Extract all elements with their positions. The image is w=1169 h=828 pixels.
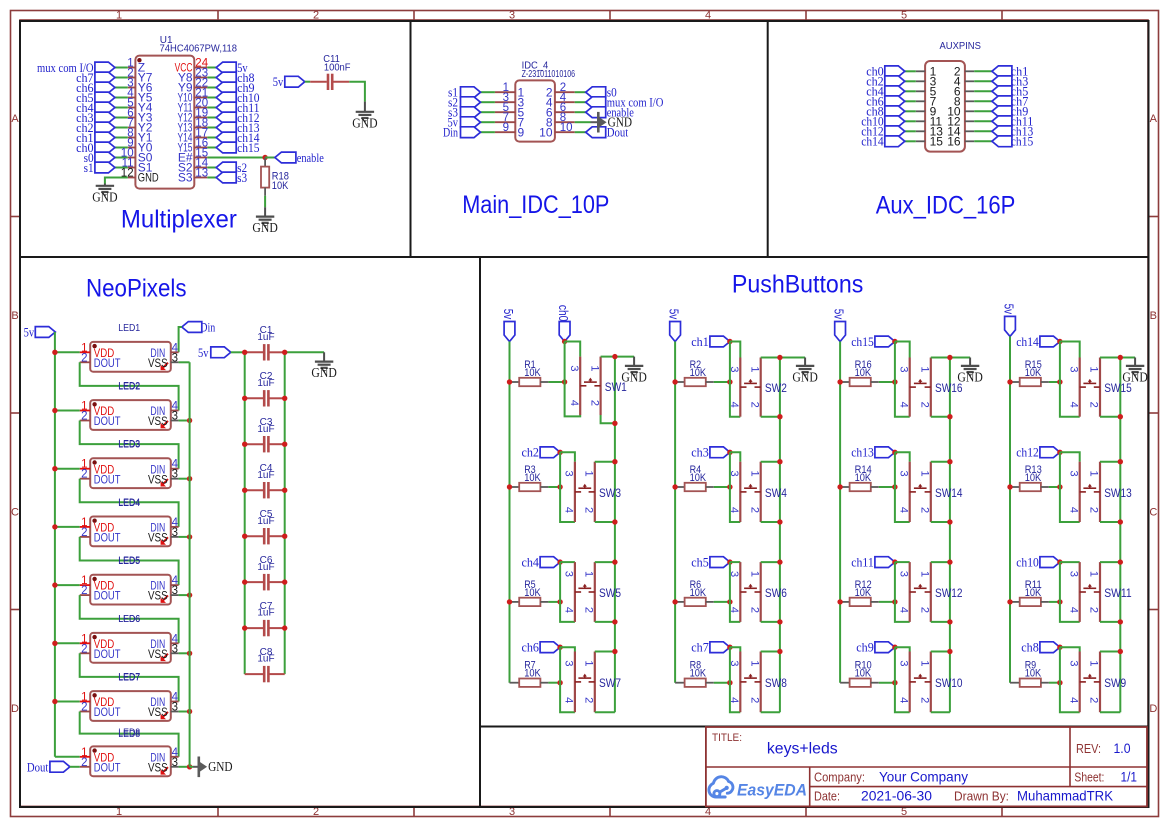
LED8 pin 4 DIN stub + number + name [150, 747, 178, 765]
svg-text:2: 2 [748, 507, 760, 513]
AUXPINS pin 7 stub + number [916, 95, 937, 109]
svg-text:VSS: VSS [148, 589, 168, 603]
LED8 reference label [118, 727, 140, 738]
wire ch10 node vertical [1060, 562, 1080, 622]
junction dots C5 [242, 534, 287, 539]
svg-text:1uF: 1uF [257, 378, 274, 389]
svg-text:VSS: VSS [148, 760, 168, 774]
power flag 5v (push button column 3) [832, 309, 846, 342]
net flag ch10 on U1 pin 21 [207, 91, 259, 105]
U1 pin 4 (Y5) stub + number + name [127, 88, 153, 105]
LED5 pin 2 DOUT stub + number + name [80, 585, 121, 603]
wire C1 to ground [285, 351, 324, 353]
svg-text:VSS: VSS [148, 472, 168, 486]
net flag enable on IDC_4 pin 6 [575, 106, 634, 120]
svg-text:SW14: SW14 [935, 488, 963, 500]
svg-text:A: A [1150, 113, 1158, 125]
junction 5v rail to LED3 VDD [52, 466, 79, 471]
wire SW7 pin 1 to gnd rail [595, 649, 618, 654]
svg-text:2: 2 [81, 411, 87, 423]
wire ch14 node to switch pin 3 [1060, 342, 1080, 358]
net flag ch2 on U1 pin 7 [76, 121, 128, 135]
R11 value label 10K [1025, 587, 1042, 599]
svg-text:DOUT: DOUT [94, 356, 121, 370]
LED1 pin 1 VDD stub + number + name [80, 342, 115, 360]
section title Main_IDC_10P [462, 191, 609, 219]
svg-text:3: 3 [1067, 471, 1079, 477]
wire U1 pin 12 to ground [105, 178, 128, 184]
wire SW16 pin 2 to gnd rail [931, 414, 953, 419]
svg-text:5v: 5v [501, 309, 515, 320]
U1 pin 22 (Y9) stub + number + name [178, 78, 208, 95]
U1 pin 1 (Z) stub + number + name [127, 58, 145, 75]
svg-text:B: B [11, 310, 18, 322]
LED5 pin 4 DIN stub + number + name [150, 575, 178, 593]
power flag 5v (push button column 2) [667, 309, 681, 342]
svg-text:DOUT: DOUT [94, 414, 121, 428]
wire SW5 pin 1 to gnd rail [595, 559, 618, 564]
wire SW4 pin 1 to gnd rail [761, 459, 783, 464]
svg-text:4: 4 [1067, 402, 1079, 408]
svg-text:4: 4 [568, 400, 580, 406]
svg-text:3: 3 [172, 702, 178, 714]
svg-text:C: C [1149, 507, 1157, 519]
U1 pin 24 (VCC) stub + number + name [175, 58, 209, 75]
AUXPINS pin 4 stub + number [954, 75, 974, 89]
resistor R10 10K [840, 679, 895, 687]
svg-text:enable: enable [297, 151, 324, 165]
svg-text:10K: 10K [524, 668, 541, 680]
resistor R13 10K [1010, 483, 1060, 491]
svg-text:Date:: Date: [814, 789, 840, 803]
R14 reference label [855, 464, 872, 476]
svg-text:ch15: ch15 [851, 335, 874, 349]
svg-text:LED6: LED6 [118, 614, 140, 625]
wire LED3 DOUT to LED4 DIN [80, 479, 179, 527]
svg-text:A: A [11, 113, 19, 125]
svg-text:1: 1 [919, 660, 931, 666]
WS2812 LED4 body [90, 517, 171, 547]
svg-text:1uF: 1uF [257, 470, 274, 481]
R2 value label 10K [690, 367, 707, 379]
SW10 reference label [935, 678, 963, 690]
svg-text:4: 4 [897, 402, 909, 408]
svg-text:4: 4 [1067, 607, 1079, 613]
svg-text:10: 10 [539, 125, 553, 139]
svg-text:ch4: ch4 [522, 555, 540, 569]
wire ch0 node vertical [565, 342, 581, 417]
SW1 pin 2 number [588, 400, 600, 406]
svg-text:SW13: SW13 [1104, 488, 1132, 500]
IDC_4 pin 5 stub + numbers [495, 102, 525, 119]
wire SW12 pin 2 to gnd rail [931, 619, 953, 624]
IDC_4 pin 9 stub + numbers [495, 122, 525, 139]
wire LED6 DOUT to LED7 DIN [80, 653, 179, 701]
SW6 reference label [765, 588, 787, 600]
AUXPINS pin 13 stub + number [916, 125, 943, 139]
svg-text:1/1: 1/1 [1121, 769, 1138, 785]
SW5 pin 1 number [583, 571, 595, 577]
wire LED1 DOUT to LED2 DIN [80, 362, 179, 410]
wire SW1 pin 2 to gnd rail [601, 415, 618, 426]
SW14 pin 4 number [897, 507, 909, 513]
R7 value label 10K [524, 668, 541, 680]
wire ch11 node vertical [895, 562, 910, 622]
svg-text:2: 2 [1088, 402, 1100, 408]
R15 reference label [1025, 359, 1042, 371]
SW11 pin 2 number [1088, 607, 1100, 613]
svg-text:SW6: SW6 [765, 588, 787, 600]
svg-text:2: 2 [748, 697, 760, 703]
svg-text:2: 2 [919, 697, 931, 703]
resistor R6 10K [675, 598, 730, 606]
C8 reference label [260, 647, 273, 658]
wire ch9 node vertical [895, 647, 910, 712]
SW7 pin 3 number [563, 660, 575, 666]
net flag ch13 [851, 446, 895, 460]
net flag ch4 on U1 pin 5 [76, 101, 128, 115]
U1 pin 2 (Y7) stub + number + name [127, 68, 153, 85]
resistor R5 10K [510, 598, 561, 606]
svg-text:1: 1 [748, 660, 760, 666]
tact switch SW13 [1080, 462, 1100, 522]
svg-text:SW8: SW8 [765, 678, 787, 690]
svg-text:SW5: SW5 [599, 588, 621, 600]
U1 pin 7 (Y2) stub + number + name [127, 118, 153, 135]
title block Sheet label [1074, 771, 1104, 785]
AUXPINS pin 11 stub + number [916, 115, 943, 129]
svg-text:ch3: ch3 [691, 446, 709, 460]
SW1 pin 4 number [568, 400, 580, 406]
svg-text:VSS: VSS [148, 414, 168, 428]
R1 value label 10K [524, 367, 541, 379]
SW5 pin 2 number [583, 607, 595, 613]
SW12 pin 1 number [919, 571, 931, 577]
junction rail-R10 [892, 680, 897, 685]
net flag ch9 on U1 pin 22 [207, 81, 254, 95]
svg-text:2: 2 [919, 507, 931, 513]
title block Company label [814, 770, 865, 784]
R13 value label 10K [1025, 472, 1042, 484]
wire ch12 node to switch pin 3 [1060, 452, 1080, 461]
svg-text:AUXPINS: AUXPINS [940, 41, 982, 52]
R8 reference label [690, 660, 702, 672]
svg-text:1uF: 1uF [257, 332, 274, 343]
R14 value label 10K [855, 472, 872, 484]
LED6 pin 1 VDD stub + number + name [80, 633, 115, 651]
R10 reference label [855, 660, 872, 672]
tact switch SW4 [740, 462, 760, 522]
svg-text:ch0: ch0 [556, 305, 570, 322]
resistor R4 10K [675, 483, 730, 491]
svg-text:3: 3 [563, 471, 575, 477]
tact switch SW3 [575, 462, 595, 522]
SW13 pin 3 number [1067, 471, 1079, 477]
LED3 pin 2 DOUT stub + number + name [80, 469, 121, 487]
SW6 pin 2 number [748, 607, 760, 613]
C2 value label 1uF [257, 378, 274, 389]
U1 pin 20 (Y11) stub + number + name [178, 98, 209, 115]
svg-text:10K: 10K [1025, 367, 1042, 379]
SW15 pin 4 number [1067, 402, 1079, 408]
svg-text:5v: 5v [273, 75, 284, 89]
C2 reference label [260, 371, 273, 382]
U1 pin 18 (Y13) stub + number + name [178, 118, 209, 135]
svg-text:GND: GND [608, 115, 633, 130]
C1 value label 1uF [257, 332, 274, 343]
SW2 reference label [765, 383, 787, 395]
R18 value label 10K [272, 180, 289, 192]
net flag ch4 [522, 555, 561, 569]
net flag mux com I/O on IDC_4 pin 4 [575, 96, 664, 110]
net flag ch9 [856, 641, 895, 655]
C11 value label 100nF [324, 62, 351, 73]
frame column ticks and numbers [116, 10, 1002, 819]
svg-text:3: 3 [172, 757, 178, 769]
svg-text:1uF: 1uF [257, 608, 274, 619]
wire SW3 pin 1 to gnd rail [595, 459, 618, 464]
junction dots C4 [242, 488, 287, 493]
svg-text:4: 4 [728, 697, 740, 703]
net flag ch5 on U1 pin 4 [76, 91, 128, 105]
SW1 reference label [605, 382, 627, 394]
svg-text:3: 3 [172, 469, 178, 481]
SW5 pin 4 number [563, 607, 575, 613]
wire ch4 node vertical [560, 562, 575, 622]
net flag s3 on IDC_4 pin 5 [448, 106, 495, 120]
junction ch1 node [727, 339, 732, 344]
junction rail-R8 [727, 680, 732, 685]
net flag ch6 on AUXPINS pin 7 [866, 95, 916, 109]
svg-text:GND: GND [311, 365, 337, 380]
wire ch6 node to switch pin 3 [560, 647, 575, 651]
svg-text:3: 3 [172, 411, 178, 423]
wire ch7 node vertical [730, 647, 740, 712]
C5 reference label [260, 509, 273, 520]
R4 reference label [690, 464, 702, 476]
svg-text:2: 2 [748, 402, 760, 408]
LED4 pin 2 DOUT stub + number + name [80, 527, 121, 545]
U1 pin 13 (S3) stub + number + name [178, 168, 208, 185]
svg-text:1: 1 [919, 471, 931, 477]
svg-text:10K: 10K [1025, 668, 1042, 680]
svg-text:1uF: 1uF [257, 424, 274, 435]
net flag Din on IDC_4 pin 9 [443, 126, 495, 140]
U1 value label 74HC4067PW,118 [160, 44, 238, 55]
IDC_4 pin 2 stub + numbers [546, 82, 575, 99]
resistor R3 10K [510, 483, 561, 491]
wire ch1 node vertical [730, 342, 740, 417]
svg-text:3: 3 [172, 527, 178, 539]
svg-text:ch10: ch10 [1016, 555, 1039, 569]
svg-text:2: 2 [748, 607, 760, 613]
svg-text:2: 2 [81, 352, 87, 364]
LED7 pin 1 VDD stub + number + name [80, 692, 115, 710]
SW15 pin 3 number [1067, 366, 1079, 372]
section title PushButtons [732, 271, 863, 299]
svg-text:4: 4 [897, 697, 909, 703]
connector AUXPINS body [925, 61, 965, 152]
capacitor C4 [245, 482, 285, 498]
C4 reference label [260, 463, 273, 474]
SW10 pin 2 number [919, 697, 931, 703]
svg-text:SW1: SW1 [605, 382, 627, 394]
SW5 reference label [599, 588, 621, 600]
svg-text:5v: 5v [832, 309, 846, 320]
svg-text:s3: s3 [237, 171, 247, 185]
wire SW9 pin 1 to gnd rail [1100, 649, 1123, 654]
junction ch15 node [892, 339, 897, 344]
svg-text:2: 2 [81, 585, 87, 597]
SW1 pin 3 number [568, 365, 580, 371]
junction ch11 node [892, 559, 897, 564]
tact switch SW8 [740, 652, 760, 713]
svg-text:1: 1 [1088, 660, 1100, 666]
svg-text:ch2: ch2 [522, 446, 540, 460]
IDC_4 pin 1 stub + numbers [495, 82, 525, 99]
svg-text:DOUT: DOUT [94, 472, 121, 486]
R5 value label 10K [524, 587, 541, 599]
R6 reference label [690, 579, 702, 591]
resistor R2 10K [675, 378, 730, 386]
svg-text:SW12: SW12 [935, 588, 963, 600]
SW16 reference label [935, 383, 963, 395]
R1 reference label [524, 359, 536, 371]
U1 pin 23 (Y8) stub + number + name [178, 68, 208, 85]
svg-text:5v: 5v [198, 346, 209, 360]
LED4 reference label [118, 497, 140, 508]
net flag mux com I/O on U1 pin 1 [37, 61, 128, 75]
resistor R1 10K [510, 378, 565, 386]
wire ch14 node vertical [1060, 342, 1080, 417]
R8 value label 10K [690, 668, 707, 680]
junction 5v rail to LED6 VDD [52, 641, 79, 646]
R7 reference label [524, 660, 536, 672]
svg-text:DOUT: DOUT [94, 647, 121, 661]
SW11 pin 4 number [1067, 607, 1079, 613]
WS2812 LED2 body [90, 400, 171, 430]
wire SW6 pin 1 to gnd rail [761, 559, 783, 564]
section title Multiplexer [121, 206, 237, 234]
junction rail-R16 [837, 379, 897, 384]
wire ch2 node vertical [560, 452, 575, 522]
junction dots C3 [242, 442, 287, 447]
C4 value label 1uF [257, 470, 274, 481]
IDC_4 pin 10 stub + numbers [539, 122, 575, 139]
svg-text:1: 1 [583, 660, 595, 666]
wire ch10 node to switch pin 3 [1060, 561, 1080, 563]
R9 value label 10K [1025, 668, 1042, 680]
svg-text:3: 3 [728, 660, 740, 666]
svg-text:PushButtons: PushButtons [732, 271, 863, 299]
SW10 pin 4 number [897, 697, 909, 703]
U1 reference designator label [160, 35, 173, 46]
ground symbol below C11 [352, 102, 378, 131]
U1 pin 9 (Y0) stub + number + name [127, 138, 153, 155]
AUXPINS reference label [940, 41, 982, 52]
svg-text:2: 2 [81, 702, 87, 714]
net flag 5v at C11 [273, 75, 310, 89]
svg-text:3: 3 [728, 471, 740, 477]
svg-text:1: 1 [919, 366, 931, 372]
junction 5v rail to LED5 VDD [52, 582, 79, 587]
tact switch SW15 [1080, 358, 1100, 417]
title block sheet value 1/1 [1121, 769, 1138, 785]
AUXPINS pin 1 stub + number [916, 65, 937, 79]
net flag s2 on IDC_4 pin 3 [448, 96, 495, 110]
LED4 pin 4 DIN stub + number + name [150, 517, 178, 535]
svg-text:10: 10 [560, 122, 573, 134]
svg-text:Main_IDC_10P: Main_IDC_10P [462, 191, 609, 219]
SW12 reference label [935, 588, 963, 600]
svg-text:keys+leds: keys+leds [767, 741, 838, 758]
capacitor C7 [245, 620, 285, 636]
IDC_4 reference label [522, 60, 549, 71]
SW9 pin 3 number [1067, 660, 1079, 666]
svg-text:4: 4 [705, 10, 711, 22]
svg-text:VSS: VSS [148, 356, 168, 370]
svg-text:SW15: SW15 [1104, 383, 1132, 395]
svg-text:10K: 10K [855, 668, 872, 680]
svg-text:3: 3 [1067, 571, 1079, 577]
svg-text:3: 3 [897, 366, 909, 372]
SW16 pin 1 number [919, 366, 931, 372]
SW7 pin 1 number [583, 660, 595, 666]
LED2 pin 1 VDD stub + number + name [80, 401, 115, 419]
SW8 pin 1 number [748, 660, 760, 666]
WS2812 LED5 body [90, 575, 171, 605]
LED7 name label on wire [118, 672, 140, 683]
R12 value label 10K [855, 587, 872, 599]
SW16 pin 3 number [897, 366, 909, 372]
svg-text:1.0: 1.0 [1114, 740, 1131, 756]
svg-text:SW3: SW3 [599, 488, 621, 500]
AUXPINS pin 16 stub + number [947, 135, 974, 149]
net flag ch3 [691, 446, 730, 460]
LED1 pin 2 DOUT stub + number + name [80, 352, 121, 370]
wire SW9 pin 2 to gnd rail [1100, 711, 1120, 713]
svg-text:10K: 10K [855, 472, 872, 484]
svg-text:VSS: VSS [148, 531, 168, 545]
junction dots C7 [242, 625, 287, 630]
LED5 reference label [118, 556, 140, 567]
net flag ch8 [1021, 641, 1060, 655]
wire switch gnd rail column 1 [614, 357, 616, 713]
junction 5v rail to LED8 VDD [55, 756, 80, 758]
tact switch SW11 [1080, 562, 1100, 622]
svg-text:1: 1 [1088, 471, 1100, 477]
wire R18 to ground [264, 196, 266, 207]
LED8 pin 2 DOUT stub + number + name [80, 757, 121, 775]
svg-text:5v: 5v [1002, 304, 1016, 315]
svg-text:LED8: LED8 [118, 727, 140, 738]
svg-text:4: 4 [728, 507, 740, 513]
WS2812 LED3 body [90, 458, 171, 488]
junction dots C6 [242, 579, 287, 584]
junction 5v rail to LED4 VDD [52, 524, 79, 529]
net flag 5v on U1 pin 24 [207, 61, 248, 75]
svg-text:Your Company: Your Company [879, 768, 968, 784]
junction ch13 node [892, 450, 897, 455]
svg-text:1: 1 [748, 366, 760, 372]
SW4 pin 4 number [728, 507, 740, 513]
wire LED2 DOUT to LED3 DIN [80, 421, 179, 469]
wire SW15 pin 2 to gnd rail [1100, 414, 1123, 419]
svg-text:3: 3 [897, 660, 909, 666]
svg-text:2: 2 [81, 469, 87, 481]
WS2812 LED7 body [90, 691, 171, 721]
SW6 pin 1 number [748, 571, 760, 577]
